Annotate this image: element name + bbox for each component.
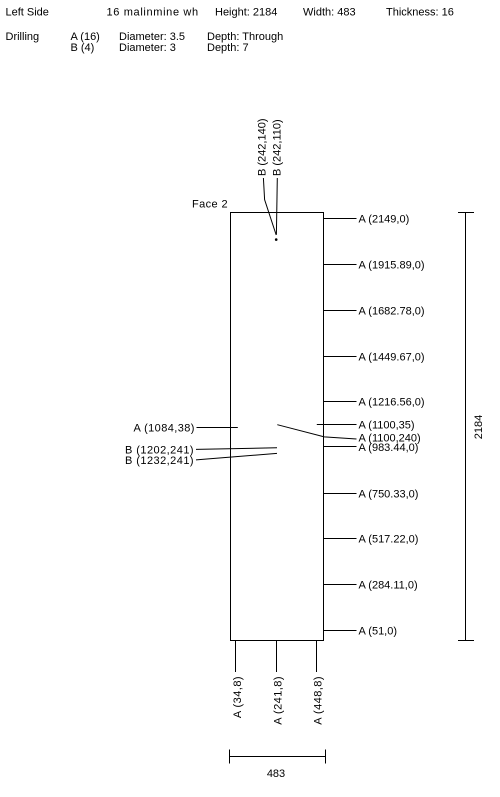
tick for hole A (2149,0)	[324, 218, 357, 220]
svg-text:B (242,140): B (242,140)	[256, 119, 268, 176]
hole dot for B holes	[275, 238, 278, 241]
svg-text:A (448,8): A (448,8)	[312, 676, 324, 725]
leader line for B (1202,241)	[196, 448, 277, 450]
svg-text:B (1232,241): B (1232,241)	[125, 455, 194, 467]
svg-text:Left Side: Left Side	[6, 7, 49, 19]
height dimension line 2184	[465, 213, 467, 641]
leader line for B (242,140)	[263, 178, 276, 235]
bottom tick for hole A (241,8)	[276, 641, 278, 672]
svg-text:A (1915.89,0): A (1915.89,0)	[359, 259, 425, 271]
bottom tick for hole A (448,8)	[316, 641, 318, 672]
svg-text:A (1084,38): A (1084,38)	[134, 422, 195, 434]
svg-text:A (517.22,0): A (517.22,0)	[359, 533, 419, 545]
leader line for B (242,110)	[275, 178, 278, 235]
tick for hole A (750.33,0)	[324, 493, 357, 495]
svg-text:B (4): B (4)	[71, 42, 95, 54]
height dimension bottom cap	[458, 640, 474, 642]
tick for hole A (1100,35)	[317, 424, 357, 426]
width dimension left cap	[229, 750, 231, 764]
bottom tick for hole A (34,8)	[235, 641, 237, 672]
leader line for B (1232,241)	[196, 453, 277, 460]
leader line for A (1100,240)	[277, 425, 356, 439]
tick for hole A (1682.78,0)	[324, 310, 357, 312]
tick for hole A (1449.67,0)	[324, 356, 357, 358]
svg-text:A (983.44,0): A (983.44,0)	[359, 442, 419, 454]
tick for hole A (983.44,0)	[324, 446, 357, 448]
svg-text:B (242,110): B (242,110)	[272, 119, 284, 176]
svg-text:A (241,8): A (241,8)	[273, 676, 285, 725]
svg-text:A (2149,0): A (2149,0)	[359, 213, 410, 225]
svg-text:16 malinmine wh: 16 malinmine wh	[107, 7, 199, 19]
height dimension top cap	[458, 212, 474, 214]
width dimension line 483	[230, 756, 326, 758]
svg-text:A (750.33,0): A (750.33,0)	[359, 488, 419, 500]
svg-text:Height: 2184: Height: 2184	[215, 7, 277, 19]
svg-text:2184: 2184	[473, 415, 485, 439]
panel outline	[231, 213, 324, 641]
tick for hole A (284.11,0)	[324, 584, 357, 586]
svg-text:A (1216.56,0): A (1216.56,0)	[359, 396, 425, 408]
tick for hole A (1216.56,0)	[324, 401, 357, 403]
svg-text:A (1682.78,0): A (1682.78,0)	[359, 305, 425, 317]
tick for hole A (517.22,0)	[324, 538, 357, 540]
svg-text:A (1449.67,0): A (1449.67,0)	[359, 351, 425, 363]
svg-text:A (34,8): A (34,8)	[232, 676, 244, 718]
svg-text:A (51,0): A (51,0)	[359, 625, 398, 637]
svg-text:Face 2: Face 2	[192, 199, 228, 211]
tick for hole A (51,0)	[324, 630, 357, 632]
svg-text:Width: 483: Width: 483	[303, 7, 356, 19]
width dimension right cap	[325, 750, 327, 764]
tick for hole A (1915.89,0)	[324, 264, 357, 266]
svg-text:483: 483	[267, 768, 285, 780]
svg-text:A (284.11,0): A (284.11,0)	[359, 579, 418, 591]
svg-text:A (1100,35): A (1100,35)	[359, 420, 415, 432]
svg-text:Depth: 7: Depth: 7	[207, 42, 249, 54]
svg-text:Diameter: 3: Diameter: 3	[119, 42, 176, 54]
leader line for A (1084,38)	[197, 427, 238, 429]
svg-text:Thickness: 16: Thickness: 16	[386, 7, 454, 19]
svg-text:Drilling: Drilling	[6, 31, 40, 43]
